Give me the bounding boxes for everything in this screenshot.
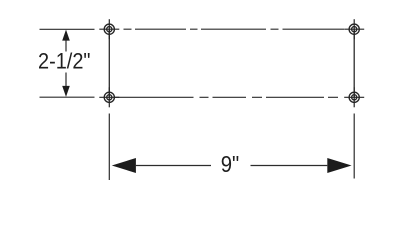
svg-text:9": 9" <box>221 151 240 177</box>
right extension line of horizontal dimension <box>353 114 355 179</box>
left extension line of horizontal dimension <box>108 114 110 181</box>
bottom centerline (dash-dot) <box>115 96 338 98</box>
top centerline (dash-dot) <box>124 28 345 30</box>
vertical dimension line segments <box>65 41 67 87</box>
hole symbol top-left <box>99 19 119 39</box>
left arrowhead <box>112 158 136 173</box>
hole symbol bottom-right <box>344 87 364 107</box>
left side line between holes <box>108 29 110 97</box>
up arrowhead <box>62 30 70 41</box>
hole symbol bottom-left <box>99 87 119 107</box>
horizontal dimension line segments <box>136 165 327 167</box>
hole symbol top-right <box>344 19 364 39</box>
down arrowhead <box>62 86 70 97</box>
top extension line of vertical dimension <box>40 28 95 30</box>
right side line between holes <box>353 29 355 97</box>
svg-text:2-1/2": 2-1/2" <box>38 49 91 74</box>
bottom extension line of vertical dimension <box>40 96 95 98</box>
right arrowhead <box>327 158 351 173</box>
